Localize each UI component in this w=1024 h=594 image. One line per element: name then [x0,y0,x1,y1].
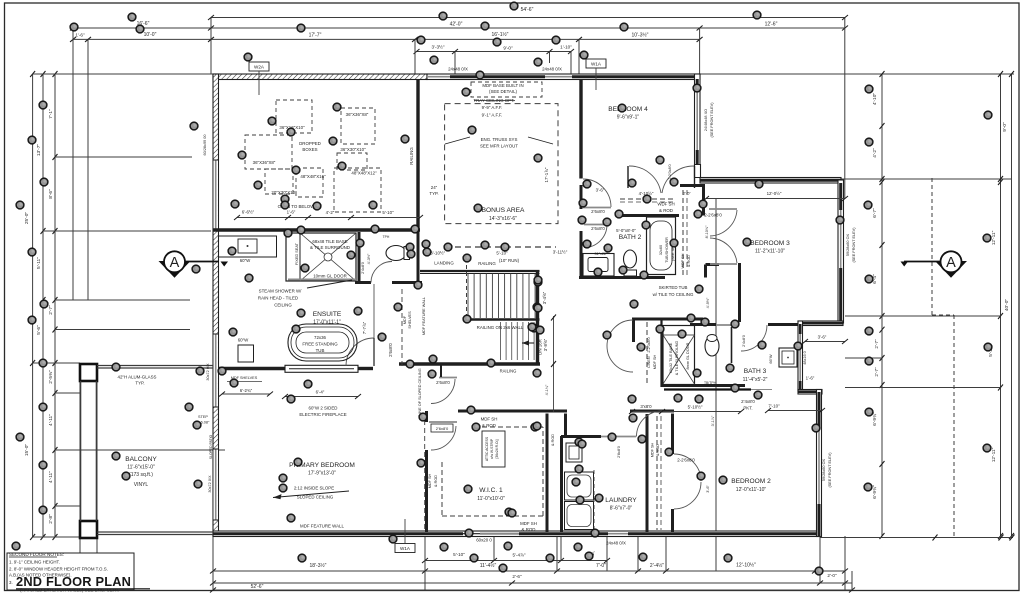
svg-text:9'-0": 9'-0" [1002,122,1008,132]
attic access box [482,431,505,467]
svg-text:17'-7": 17'-7" [309,33,322,39]
bath3 towel bar [664,388,751,390]
svg-text:24": 24" [431,185,438,190]
label W1A top [586,59,606,68]
interior wall: railing wall at WC [417,231,420,284]
svg-text:12'-11": 12'-11" [991,230,997,245]
svg-text:& ROD: & ROD [656,444,660,456]
svg-text:59/28x60 OX: 59/28x60 OX [846,233,850,256]
svg-text:W.I.C. 1: W.I.C. 1 [479,487,503,494]
svg-text:BEDROOM 2: BEDROOM 2 [731,478,771,485]
svg-text:LINE OF SLOPED CEILING: LINE OF SLOPED CEILING [418,368,422,416]
bath3 vanity [779,348,797,367]
svg-text:SECOND FLOOR NOTES:: SECOND FLOOR NOTES: [9,552,64,557]
svg-text:10'-0": 10'-0" [144,32,157,38]
svg-text:4'-11": 4'-11" [48,471,54,483]
svg-text:11'-2"x11'-10": 11'-2"x11'-10" [755,249,785,255]
svg-text:(10" RUN): (10" RUN) [499,258,520,263]
stairs upper flight treads [468,274,535,319]
svg-text:MDF FEATURE WALL: MDF FEATURE WALL [300,524,344,529]
svg-text:12'-0½": 12'-0½" [767,191,782,196]
svg-text:8mm GL DOOR: 8mm GL DOOR [686,342,690,369]
svg-text:RAIN HEAD - TILED: RAIN HEAD - TILED [258,296,298,301]
interior wall: stair lower right rail [536,322,539,364]
dropped boxes dashed (bonus area) [276,100,312,133]
window 59/28x60 OX bedroom2 [818,427,820,504]
bath3 shower [663,326,695,385]
svg-text:BEDROOM 3: BEDROOM 3 [750,240,790,247]
svg-text:MDF: MDF [403,315,407,324]
svg-text:A: A [170,255,180,271]
interior wall: ensuite WC left [358,232,361,284]
svg-text:2-2'0x8'0: 2-2'0x8'0 [647,337,651,352]
svg-text:2'6x8'0: 2'6x8'0 [591,209,605,214]
svg-text:(SEE FRONT ELEV): (SEE FRONT ELEV) [828,452,832,488]
interior wall: bath3 vanity top wall [768,323,798,326]
svg-text:3'-4⅝": 3'-4⅝" [542,291,547,304]
exterior wall bottom [213,531,821,537]
svg-text:2'-7": 2'-7" [874,367,879,377]
svg-text:LANDING: LANDING [434,261,454,266]
window 24x48 top left [427,76,450,78]
svg-text:2'8x8'0: 2'8x8'0 [617,446,621,458]
bottom dimension lines [80,198,855,593]
wall jog bedroom4 to east wall [695,165,701,178]
exterior wall bath3 right [798,321,803,391]
svg-text:BOXES: BOXES [302,147,317,152]
svg-text:2'6x8'0: 2'6x8'0 [436,426,449,431]
svg-text:& ROD: & ROD [551,434,555,446]
svg-text:4'-3½": 4'-3½" [367,253,371,264]
svg-text:MDF BASE BUILT IN: MDF BASE BUILT IN [482,83,523,88]
svg-text:42"H ALUM-GLASS: 42"H ALUM-GLASS [118,375,157,380]
ensuite vanity top [219,236,277,257]
balcony rail bottom [97,531,213,533]
door bedroom2 double doors [674,454,701,481]
svg-text:5'-10": 5'-10" [453,552,465,557]
svg-text:WDF SH: WDF SH [657,202,674,207]
svg-text:WDF SH: WDF SH [545,432,549,447]
svg-text:& ROD: & ROD [659,208,673,213]
svg-text:2-2'6x8'0: 2-2'6x8'0 [677,458,695,463]
svg-text:14'-3"x16'-6": 14'-3"x16'-6" [489,216,517,222]
svg-text:72x36: 72x36 [314,335,327,340]
svg-text:42'-0": 42'-0" [450,22,463,28]
svg-text:3'x8'0: 3'x8'0 [640,404,652,409]
svg-text:11'-0"x10'-0": 11'-0"x10'-0" [477,496,505,502]
svg-text:7'-1": 7'-1" [48,109,54,119]
svg-text:48"X48"X12": 48"X48"X12" [351,171,377,176]
svg-text:w/ TILE TO CEILING: w/ TILE TO CEILING [653,292,694,297]
interior wall: stairwell right [536,271,539,322]
svg-text:6'-9¾": 6'-9¾" [872,485,878,499]
svg-text:60"W 2 SIDED: 60"W 2 SIDED [309,406,338,411]
svg-text:17'-1⅞": 17'-1⅞" [544,167,549,182]
window 60/28x99 left wall [213,160,218,230]
svg-text:TYP.: TYP. [429,191,438,196]
door ensuite entry [346,338,374,366]
svg-text:1. 9'-1" CEILING HEIGHT.: 1. 9'-1" CEILING HEIGHT. [9,560,60,565]
svg-text:2ND FLOOR PLAN: 2ND FLOOR PLAN [16,574,131,589]
svg-text:3'-6": 3'-6" [818,335,827,340]
svg-text:BALCONY: BALCONY [125,456,157,463]
bath3 toilet [705,336,719,356]
svg-text:1'-6": 1'-6" [287,210,296,215]
svg-text:4'-10": 4'-10" [872,93,878,106]
svg-text:3'-11½": 3'-11½" [553,250,568,255]
stairs dim line right [553,316,555,412]
svg-text:LINEN: LINEN [647,356,651,367]
interior wall: bath3 top [690,323,716,326]
svg-text:4'-11": 4'-11" [48,414,54,426]
svg-text:MDF SH: MDF SH [428,473,432,488]
svg-text:7'-10": 7'-10" [768,404,780,409]
svg-text:2-2'6x8'0: 2-2'6x8'0 [704,213,722,218]
svg-text:2'-5⅜": 2'-5⅜" [48,370,54,384]
svg-text:5'-4⅞": 5'-4⅞" [513,553,526,558]
svg-text:TUB: TUB [316,348,325,353]
svg-text:10mm GL DOOR: 10mm GL DOOR [313,274,347,279]
svg-text:4'-9½": 4'-9½" [706,297,710,308]
exterior wall bedroom2 right [817,390,822,537]
interior wall: hall/WIC top [458,410,567,413]
svg-text:11'-4"x5'-2": 11'-4"x5'-2" [743,377,768,383]
svg-text:2'-4½": 2'-4½" [650,562,664,569]
svg-text:5'-6": 5'-6" [36,325,42,335]
interior wall: bed3 south-west walls [706,263,720,266]
window 60x20 bottom [480,533,519,535]
svg-text:60"W: 60"W [240,258,251,263]
svg-text:16'-1½": 16'-1½" [492,31,509,38]
svg-text:5'-10½": 5'-10½" [688,405,703,410]
svg-text:BATH 3: BATH 3 [744,368,767,375]
svg-text:DN 16R: DN 16R [538,339,543,355]
svg-text:6'-7": 6'-7" [872,208,878,218]
svg-text:& TILE SURROUND: & TILE SURROUND [675,340,679,375]
svg-text:2:12 INSIDE SLOPE: 2:12 INSIDE SLOPE [294,486,334,491]
svg-text:RAILING: RAILING [500,369,517,374]
svg-text:2'-8": 2'-8" [48,514,54,524]
svg-text:RAILING ON 2x6 WALL: RAILING ON 2x6 WALL [477,325,524,330]
svg-text:60"W: 60"W [238,338,249,343]
svg-text:2'4x8'0: 2'4x8'0 [741,399,755,404]
interior wall: linen left [632,319,635,342]
exterior wall top bedroom4 [427,74,700,80]
interior wall: stairwell bottom [399,362,540,365]
laundry dashed fronts [593,470,595,530]
balcony rail left [80,381,82,521]
interior wall: bath2 left [580,185,583,209]
interior wall: laundry top [561,435,601,438]
svg-text:PKT.: PKT. [743,406,752,411]
interior wall: laundry right [646,414,649,532]
svg-text:11'-6"x15'-0": 11'-6"x15'-0" [127,465,155,471]
interior wall: bed3 closet right [702,186,705,216]
exterior wall east (bedroom3 top) [700,178,841,184]
interior wall: bonus railing wall [416,79,419,231]
second floor notes box [7,553,134,590]
svg-text:& TILE SURROUND: & TILE SURROUND [310,245,350,250]
interior wall: bonus/bedroom4 divider [579,79,582,179]
svg-text:31"x22": 31"x22" [594,252,608,256]
interior wall: bedroom2 west upper [671,414,674,455]
svg-text:2'6x8'0: 2'6x8'0 [436,380,450,385]
bath2 toilet [624,250,637,268]
svg-text:11'-4½": 11'-4½" [480,562,497,569]
svg-text:3'-3½": 3'-3½" [432,44,445,50]
svg-text:2'-7": 2'-7" [874,339,879,349]
balcony post bottom [80,521,97,538]
svg-text:FREE STANDING: FREE STANDING [302,342,338,347]
door bedroom4 closet double [629,166,661,193]
svg-text:WDF SH: WDF SH [681,253,685,268]
door hall near stairs [439,377,457,379]
svg-text:2'6x8'0: 2'6x8'0 [591,226,605,231]
left dimension lines [24,71,225,540]
svg-text:9'-0": 9'-0" [503,46,513,51]
svg-text:ENG. TRUSS SYS: ENG. TRUSS SYS [481,137,518,142]
svg-text:12'-10½": 12'-10½" [736,562,756,569]
svg-text:A: A [946,255,956,271]
section marker A left [159,251,229,278]
interior wall: bath2/bed3 closet top [680,184,705,187]
svg-text:20"X30"X10": 20"X30"X10" [271,190,297,195]
door bedroom3 double lower leaf [710,263,737,265]
svg-text:2'4x8'0: 2'4x8'0 [742,335,746,347]
svg-text:RAILING: RAILING [478,261,496,266]
door WIC entry [429,421,457,423]
svg-text:30x72 0/X: 30x72 0/X [206,363,210,381]
ensuite freestanding tub [288,324,357,361]
svg-text:24x48 0/X: 24x48 0/X [448,67,468,72]
svg-text:3'-6": 3'-6" [706,485,710,493]
window 24x48 top right [545,76,572,78]
svg-text:& ROD: & ROD [482,423,496,428]
svg-text:VINYL: VINYL [134,482,149,488]
svg-text:9'-1" A.F.F.: 9'-1" A.F.F. [482,113,503,118]
svg-text:40'-0": 40'-0" [1004,299,1010,312]
interior wall: bedroom2 west lower [671,509,674,532]
svg-text:W2A: W2A [254,65,265,70]
svg-text:2'-0": 2'-0" [827,573,837,578]
svg-text:2. 8'-0" WINDOW HEADER HEIGH: 2. 8'-0" WINDOW HEADER HEIGHT FROM T.O.S… [9,567,108,572]
svg-text:MDF SH: MDF SH [651,442,655,457]
svg-text:SEE MFR LAYOUT: SEE MFR LAYOUT [480,144,518,149]
door bedroom3 double upper leaf [709,208,737,210]
fireplace 60in 2-sided [285,365,358,372]
svg-text:36"X36"X8": 36"X36"X8" [346,112,369,117]
bedroom4 closet rod dashed [620,198,676,200]
svg-text:MDF SH: MDF SH [653,354,657,369]
svg-text:3.: 3. [9,580,13,585]
interior wall: stairwell mid [465,318,540,320]
svg-text:12'-6": 12'-6" [765,22,778,28]
svg-text:1'-6": 1'-6" [806,376,815,381]
interior wall: ensuite WC bottom [355,281,371,284]
laundry washer [565,472,594,500]
bath2 tub/shower [647,217,676,275]
door laundry [601,436,636,438]
svg-text:7'-7⅞": 7'-7⅞" [362,321,367,334]
svg-text:25'-0": 25'-0" [24,212,30,225]
svg-text:FIXED SEAT: FIXED SEAT [295,242,299,265]
svg-text:ATTIC ACCESS: ATTIC ACCESS [485,436,489,461]
window 30x72 O/X primary left wall [213,449,218,520]
svg-text:6'-6½": 6'-6½" [242,210,255,215]
section marker A right [901,251,968,278]
stairs lower flight treads [501,322,535,360]
svg-text:2'-7": 2'-7" [48,305,54,315]
svg-text:36"X36"X8": 36"X36"X8" [253,160,276,165]
svg-text:59/28x60 OX: 59/28x60 OX [822,458,826,481]
bedroom2 closet dashed [656,416,658,530]
svg-text:5'-10": 5'-10" [382,210,394,215]
exterior wall bedroom4 right [695,74,701,167]
svg-text:6.08": 6.08" [201,421,210,425]
WIC rods dashed [441,462,443,516]
svg-text:60/28x99 00: 60/28x99 00 [203,135,207,156]
interior wall: ensuite top [213,228,420,231]
svg-text:8'-10⅝": 8'-10⅝" [705,225,709,238]
svg-text:4'-2": 4'-2" [326,210,335,215]
svg-text:24x48 0/X: 24x48 0/X [542,67,562,72]
svg-text:13'-7": 13'-7" [36,144,42,157]
svg-text:48"X48"X16": 48"X48"X16" [300,174,326,179]
svg-text:1'-10": 1'-10" [560,45,572,50]
svg-text:BEDROOM 4: BEDROOM 4 [608,106,648,113]
ensuite vanity 2 (60W) [238,345,254,362]
svg-text:48x16 0: 48x16 0 [803,351,807,365]
interior wall: bath3/linen top [632,318,703,321]
svg-text:c/w W-STRIP: c/w W-STRIP [490,438,494,459]
svg-text:4'-1¼": 4'-1¼" [545,384,549,395]
svg-text:24/48x48 XO: 24/48x48 XO [704,109,708,131]
svg-text:9'-9" A.F.F.: 9'-9" A.F.F. [482,105,503,110]
svg-text:(173 sq.ft.): (173 sq.ft.) [129,472,153,478]
svg-text:RAILING: RAILING [409,147,414,165]
svg-text:SLOPED PATIO: SLOPED PATIO [209,434,213,459]
svg-text:TB/TPH: TB/TPH [704,381,717,385]
interior wall: bath2 closet bottom + bed3 closet [618,214,679,217]
interior wall: WIC right [546,414,549,533]
svg-text:2'-6": 2'-6" [512,574,522,579]
right dimension lines [700,71,1015,541]
door ensuite WC [371,262,392,283]
linen closet dashed [646,322,648,384]
svg-text:STEP: STEP [198,415,208,419]
svg-text:24x48 0/X: 24x48 0/X [606,541,626,546]
svg-text:MDF SH: MDF SH [520,521,537,526]
svg-text:4'-2": 4'-2" [872,148,878,158]
svg-text:ELECTRIC FIREPLACE: ELECTRIC FIREPLACE [299,412,346,417]
svg-text:STEAM SHOWER W/: STEAM SHOWER W/ [259,289,302,294]
svg-text:9'-6"x9'-1": 9'-6"x9'-1" [617,115,640,121]
svg-text:2x6: 2x6 [605,276,611,280]
door bedroom4 3'-6 [583,179,611,207]
svg-text:5'-11": 5'-11" [36,257,42,269]
svg-text:CEILING: CEILING [274,303,292,308]
svg-text:TUB/SHOWER: TUB/SHOWER [665,237,669,263]
svg-text:12'-0"x11'-10": 12'-0"x11'-10" [736,487,767,493]
svg-text:2'6x8'0: 2'6x8'0 [388,343,393,357]
svg-text:2-2'0x8'0: 2-2'0x8'0 [668,164,672,179]
svg-text:5'-0"x8'-0": 5'-0"x8'-0" [616,228,636,233]
svg-text:10'-3½": 10'-3½" [632,32,649,39]
exterior wall bedroom3 right [838,180,844,323]
svg-text:& ROD: & ROD [434,475,438,487]
exterior wall bath3 top (south of bedroom3) [798,321,843,326]
top dimension lines [70,7,848,300]
svg-text:W1A: W1A [400,546,411,551]
balcony post top [80,364,97,381]
svg-text:W1A: W1A [591,62,602,67]
svg-text:18'-3½": 18'-3½" [310,562,327,569]
sloped ceiling dashed line (landing) [445,246,556,248]
svg-text:52'-6": 52'-6" [251,584,264,590]
svg-text:TYP.: TYP. [135,381,144,386]
svg-text:30x72 0/X: 30x72 0/X [208,475,212,493]
laundry dryer [565,502,594,530]
svg-text:8'-6": 8'-6" [48,189,54,199]
window 48x16 bath3 [799,334,801,381]
laundry sink [566,443,582,462]
door linen 2-2'0x8'0 [607,320,633,346]
hall west boundary line [373,284,375,366]
interior wall: stair top rail (landing) [420,270,540,272]
bath2 right closet dashed [682,190,684,276]
bath2 vanity [583,254,614,277]
svg-text:6'-2¾": 6'-2¾" [240,388,253,393]
svg-text:36"X30"X10": 36"X30"X10" [340,147,366,152]
svg-text:(SEE DETAIL): (SEE DETAIL) [489,89,518,94]
stair down arrow [522,342,534,344]
svg-text:3'-1⅞": 3'-1⅞" [711,415,715,426]
svg-text:60x32 TILE BASE: 60x32 TILE BASE [669,342,673,373]
stairs landing dashed rail [466,258,468,318]
svg-text:MDF FEATURE WALL: MDF FEATURE WALL [422,297,426,335]
svg-text:7'-0": 7'-0" [596,563,606,569]
svg-text:DROPPED: DROPPED [299,141,321,146]
interior wall: WIC left [425,411,428,422]
svg-text:BATH 2: BATH 2 [619,234,642,241]
svg-text:2'-5": 2'-5" [683,192,691,196]
svg-text:TPH: TPH [383,235,390,239]
tray ceiling dashed rect (bonus) [445,104,558,224]
svg-text:SHELVES: SHELVES [408,311,412,329]
svg-text:1'-6": 1'-6" [75,33,85,38]
svg-text:68x48 TILE BASE: 68x48 TILE BASE [312,239,347,244]
svg-text:(SEE FRONT ELEV): (SEE FRONT ELEV) [852,227,856,263]
svg-text:LAUNDRY: LAUNDRY [605,497,637,504]
svg-text:15'-0": 15'-0" [24,444,30,457]
svg-text:60x20 0: 60x20 0 [476,538,492,543]
window 59/28x60 OX bedroom3 [840,210,842,268]
interior wall: bath3 west [660,319,662,387]
svg-text:ENSUITE: ENSUITE [313,311,342,318]
svg-text:3'-8⅝": 3'-8⅝" [543,338,548,351]
svg-text:2'4x8'0: 2'4x8'0 [361,262,365,274]
interior wall: bed3 south wall east of door [738,263,741,266]
svg-text:MDF SH: MDF SH [481,417,498,422]
interior wall: bath3 bottom [661,384,745,387]
exterior wall left [213,74,219,536]
svg-text:3'-6": 3'-6" [596,188,605,193]
door bath2 lower 2'6x8'0 [584,224,607,226]
window 24/48x48 XO bedroom4 [696,88,698,150]
MDF shelves dashed hall [401,289,403,366]
balcony rail top [97,365,213,367]
interior wall: ensuite bottom / fireplace wall [218,367,285,370]
